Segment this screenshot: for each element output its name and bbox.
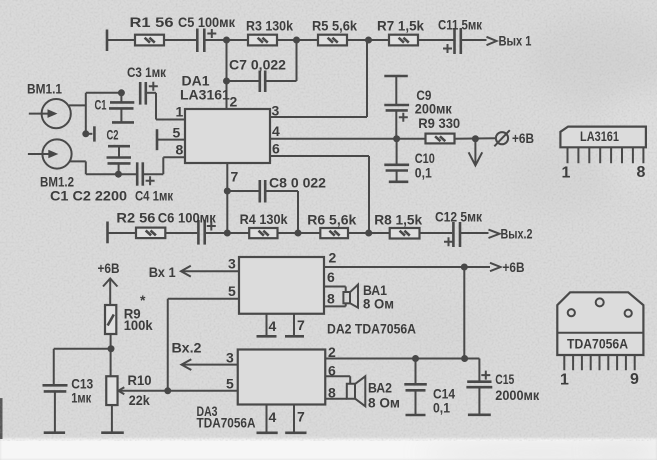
wire pin 8 path bbox=[144, 157, 185, 174]
svg-text:6: 6 bbox=[327, 269, 335, 285]
input arrow Вх.2 bbox=[172, 340, 238, 371]
+6B circle terminal bbox=[494, 130, 534, 147]
wire pin2 vertical bbox=[226, 40, 228, 109]
svg-text:Вх.2: Вх.2 bbox=[172, 340, 202, 356]
node C6/R4 bbox=[224, 230, 231, 237]
value label C1 C2 2200 bbox=[50, 188, 127, 204]
pin 2 label bbox=[230, 94, 238, 110]
wire bbox=[462, 39, 487, 41]
svg-text:22k: 22k bbox=[129, 392, 150, 408]
resistor R3 bbox=[246, 18, 293, 46]
svg-text:100k: 100k bbox=[124, 317, 153, 333]
node B on mic common bbox=[82, 130, 89, 137]
svg-text:C2: C2 bbox=[107, 127, 119, 143]
speaker BA1 bbox=[324, 269, 394, 312]
svg-text:2: 2 bbox=[230, 94, 238, 110]
wire bbox=[348, 232, 390, 234]
svg-text:200мк: 200мк bbox=[415, 100, 453, 116]
svg-text:+6В: +6В bbox=[512, 130, 534, 146]
node C9/pin4 bbox=[393, 135, 400, 142]
svg-text:R7 1,5k: R7 1,5k bbox=[377, 18, 424, 34]
svg-text:C7 0,022: C7 0,022 bbox=[229, 57, 286, 73]
svg-text:R3 130k: R3 130k bbox=[246, 18, 293, 34]
output arrow Вых 1 bbox=[487, 33, 532, 49]
svg-text:C6 100мк: C6 100мк bbox=[158, 210, 217, 226]
output arrow Вых.2 bbox=[489, 226, 533, 242]
svg-text:3: 3 bbox=[272, 103, 280, 119]
wire pin 4 rail bbox=[270, 123, 426, 139]
capacitor C4 bbox=[135, 162, 174, 203]
capacitor C1 bbox=[95, 93, 135, 123]
capacitor C2 bbox=[107, 127, 132, 175]
svg-text:4: 4 bbox=[269, 318, 277, 334]
capacitor C9 bbox=[384, 76, 452, 139]
wire DA2 pin 2 +6B rail bbox=[324, 250, 490, 268]
svg-text:4: 4 bbox=[272, 123, 280, 139]
svg-text:9: 9 bbox=[630, 371, 639, 388]
capacitor C13 bbox=[43, 376, 94, 433]
capacitor C5 bbox=[178, 14, 236, 52]
svg-text:8 Ом: 8 Ом bbox=[363, 296, 394, 312]
svg-text:7: 7 bbox=[297, 409, 305, 425]
svg-text:R8 1,5k: R8 1,5k bbox=[374, 212, 422, 228]
capacitor C14 bbox=[404, 359, 455, 416]
resistor R5 bbox=[312, 18, 357, 46]
DA3 pin 4 bbox=[257, 405, 278, 433]
svg-text:1: 1 bbox=[560, 372, 569, 389]
node at C5/R3 junction bbox=[223, 37, 230, 44]
resistor R7 bbox=[377, 18, 424, 46]
svg-text:R4 130k: R4 130k bbox=[240, 211, 288, 227]
wire bbox=[108, 232, 137, 234]
common down arrow bbox=[469, 139, 483, 166]
svg-text:+6В: +6В bbox=[98, 260, 120, 276]
node at pin 7 branch bbox=[224, 188, 231, 195]
svg-text:C1 C2 2200: C1 C2 2200 bbox=[50, 188, 127, 204]
pin 8 label bbox=[176, 142, 184, 158]
speaker BA2 bbox=[325, 362, 400, 410]
+6B supply arrow left bbox=[98, 260, 120, 305]
svg-text:8 Ом: 8 Ом bbox=[368, 395, 400, 411]
svg-text:4: 4 bbox=[269, 409, 277, 425]
svg-text:C15: C15 bbox=[495, 371, 514, 387]
wire to C13 bbox=[54, 349, 111, 385]
wire bbox=[206, 232, 250, 234]
pin 5 terminal bbox=[157, 125, 185, 151]
svg-text:0,1: 0,1 bbox=[415, 164, 432, 180]
node at C7 branch bbox=[223, 78, 230, 85]
svg-text:Вх 1: Вх 1 bbox=[149, 264, 176, 280]
wire bbox=[164, 39, 196, 41]
node R10 wiper / pin5 bbox=[164, 387, 171, 394]
svg-text:C5 100мк: C5 100мк bbox=[178, 14, 236, 30]
svg-text:C3 1мк: C3 1мк bbox=[127, 64, 167, 80]
svg-text:C1: C1 bbox=[95, 97, 107, 113]
wire pin 3 path bbox=[270, 40, 367, 119]
svg-text:R5 5,6k: R5 5,6k bbox=[312, 18, 357, 34]
capacitor C12 bbox=[435, 209, 483, 248]
wire bbox=[418, 39, 454, 41]
svg-text:7: 7 bbox=[231, 169, 239, 185]
svg-text:8: 8 bbox=[327, 290, 335, 306]
wire +6B down to DA3 rail bbox=[463, 267, 465, 359]
resistor R1 bbox=[130, 14, 174, 45]
input arrow Вх 1 bbox=[149, 256, 239, 280]
input terminal 2 bbox=[106, 222, 109, 244]
capacitor C15 bbox=[466, 371, 540, 415]
capacitor C8 bbox=[227, 175, 326, 234]
svg-text:R2 56: R2 56 bbox=[116, 210, 155, 226]
svg-text:5: 5 bbox=[228, 283, 236, 299]
node R6/R8 bbox=[365, 230, 372, 237]
wire bbox=[455, 137, 497, 140]
TDA7056A package drawing bbox=[557, 292, 643, 388]
svg-text:8: 8 bbox=[176, 142, 184, 158]
svg-text:3: 3 bbox=[228, 256, 236, 272]
node A bbox=[118, 89, 125, 96]
svg-text:2000мк: 2000мк bbox=[495, 387, 540, 403]
node +6B rail bbox=[461, 264, 468, 271]
capacitor C10 bbox=[384, 139, 435, 182]
op-amp U3 DA3 box bbox=[197, 350, 326, 431]
wire pin 7 path bbox=[227, 163, 238, 233]
capacitor C6 bbox=[158, 210, 217, 245]
svg-text:2: 2 bbox=[328, 344, 336, 360]
resistor R6 bbox=[307, 212, 356, 239]
svg-text:5: 5 bbox=[173, 125, 181, 141]
resistor R4 bbox=[240, 211, 288, 238]
wire bbox=[420, 232, 453, 234]
svg-text:LA3161: LA3161 bbox=[580, 128, 619, 144]
DA2 pin 4 bbox=[257, 314, 277, 337]
op-amp U1 DA1 box bbox=[180, 73, 270, 164]
svg-text:R9 330: R9 330 bbox=[418, 115, 460, 131]
wire R9 to node bbox=[110, 334, 112, 376]
svg-text:TDA7056A: TDA7056A bbox=[197, 415, 256, 431]
svg-text:1: 1 bbox=[562, 165, 571, 182]
svg-text:TDA7056A: TDA7056A bbox=[567, 336, 628, 352]
capacitor C11 bbox=[438, 17, 483, 55]
svg-text:R6 5,6k: R6 5,6k bbox=[307, 212, 356, 228]
pin 1 label bbox=[176, 104, 184, 120]
svg-text:C8 0 022: C8 0 022 bbox=[269, 175, 326, 191]
wire bbox=[278, 232, 321, 234]
svg-text:C4 1мк: C4 1мк bbox=[135, 187, 174, 203]
svg-text:6: 6 bbox=[272, 141, 280, 157]
svg-text:1: 1 bbox=[176, 104, 184, 120]
wire pin 6 path bbox=[270, 141, 369, 234]
svg-text:+6В: +6В bbox=[503, 259, 525, 275]
svg-text:C11 5мк: C11 5мк bbox=[438, 17, 483, 33]
wire pin 1 path bbox=[147, 93, 185, 120]
node at R5/R7 junction bbox=[365, 37, 372, 44]
svg-text:7: 7 bbox=[297, 317, 305, 333]
svg-text:Вых.2: Вых.2 bbox=[501, 226, 533, 242]
node C14 branch bbox=[412, 355, 419, 362]
svg-text:C12 5мк: C12 5мк bbox=[435, 209, 483, 225]
svg-text:6: 6 bbox=[328, 362, 336, 378]
svg-text:*: * bbox=[140, 292, 146, 308]
wire bbox=[461, 232, 489, 234]
svg-text:3: 3 bbox=[226, 350, 234, 366]
node C15 branch bbox=[461, 355, 468, 362]
LA3161 package drawing bbox=[560, 127, 646, 182]
capacitor C3 bbox=[127, 64, 167, 105]
svg-text:2: 2 bbox=[329, 250, 337, 266]
+6B arrow right bbox=[490, 259, 525, 275]
wire DA3 pin 5 bbox=[168, 376, 238, 392]
wire bbox=[107, 39, 135, 41]
wire from BM1.1 bbox=[69, 93, 121, 134]
node C on bottom mic rail bbox=[115, 171, 122, 178]
node R9/R10/C13 bbox=[108, 345, 115, 352]
microphone BM1.2 bbox=[28, 139, 74, 189]
op-amp U2 DA2 box bbox=[239, 257, 416, 337]
input terminal 1 bbox=[106, 30, 109, 52]
resistor R8 bbox=[374, 212, 422, 239]
wire DA2 pin 5 bbox=[168, 283, 239, 391]
svg-text:8: 8 bbox=[328, 385, 336, 401]
svg-text:R10: R10 bbox=[128, 372, 152, 388]
svg-text:ВА2: ВА2 bbox=[368, 380, 392, 396]
svg-text:0,1: 0,1 bbox=[433, 399, 450, 415]
capacitor C7 bbox=[227, 40, 297, 92]
wire bbox=[347, 39, 389, 41]
microphone BM1.1 bbox=[27, 81, 71, 129]
svg-text:DA2 TDA7056A: DA2 TDA7056A bbox=[327, 321, 416, 337]
svg-text:LA3161: LA3161 bbox=[180, 87, 230, 103]
DA3 pin 7 bbox=[285, 405, 306, 433]
wire bbox=[277, 39, 318, 41]
wire bbox=[206, 39, 249, 41]
resistor R2 bbox=[116, 210, 165, 239]
shield terminal stub bbox=[86, 126, 95, 141]
node at R3/R5 junction bbox=[293, 37, 300, 44]
svg-text:BM1.1: BM1.1 bbox=[27, 81, 62, 97]
resistor R9 330 bbox=[418, 115, 460, 143]
svg-text:R1 56: R1 56 bbox=[130, 14, 174, 30]
svg-text:8: 8 bbox=[637, 164, 646, 181]
wire from BM1.2 bbox=[70, 161, 137, 174]
potentiometer R10 bbox=[101, 372, 168, 433]
node R9/+6B bbox=[472, 135, 479, 142]
node R4/R6 bbox=[295, 230, 302, 237]
wire DA3 pin 2 rail bbox=[325, 344, 479, 381]
wire bbox=[165, 232, 197, 234]
svg-text:5: 5 bbox=[226, 376, 234, 392]
DA2 pin 7 bbox=[285, 314, 305, 337]
svg-text:Вых 1: Вых 1 bbox=[499, 33, 532, 49]
resistor R9* 100k bbox=[105, 292, 153, 334]
svg-text:1мк: 1мк bbox=[71, 389, 92, 405]
